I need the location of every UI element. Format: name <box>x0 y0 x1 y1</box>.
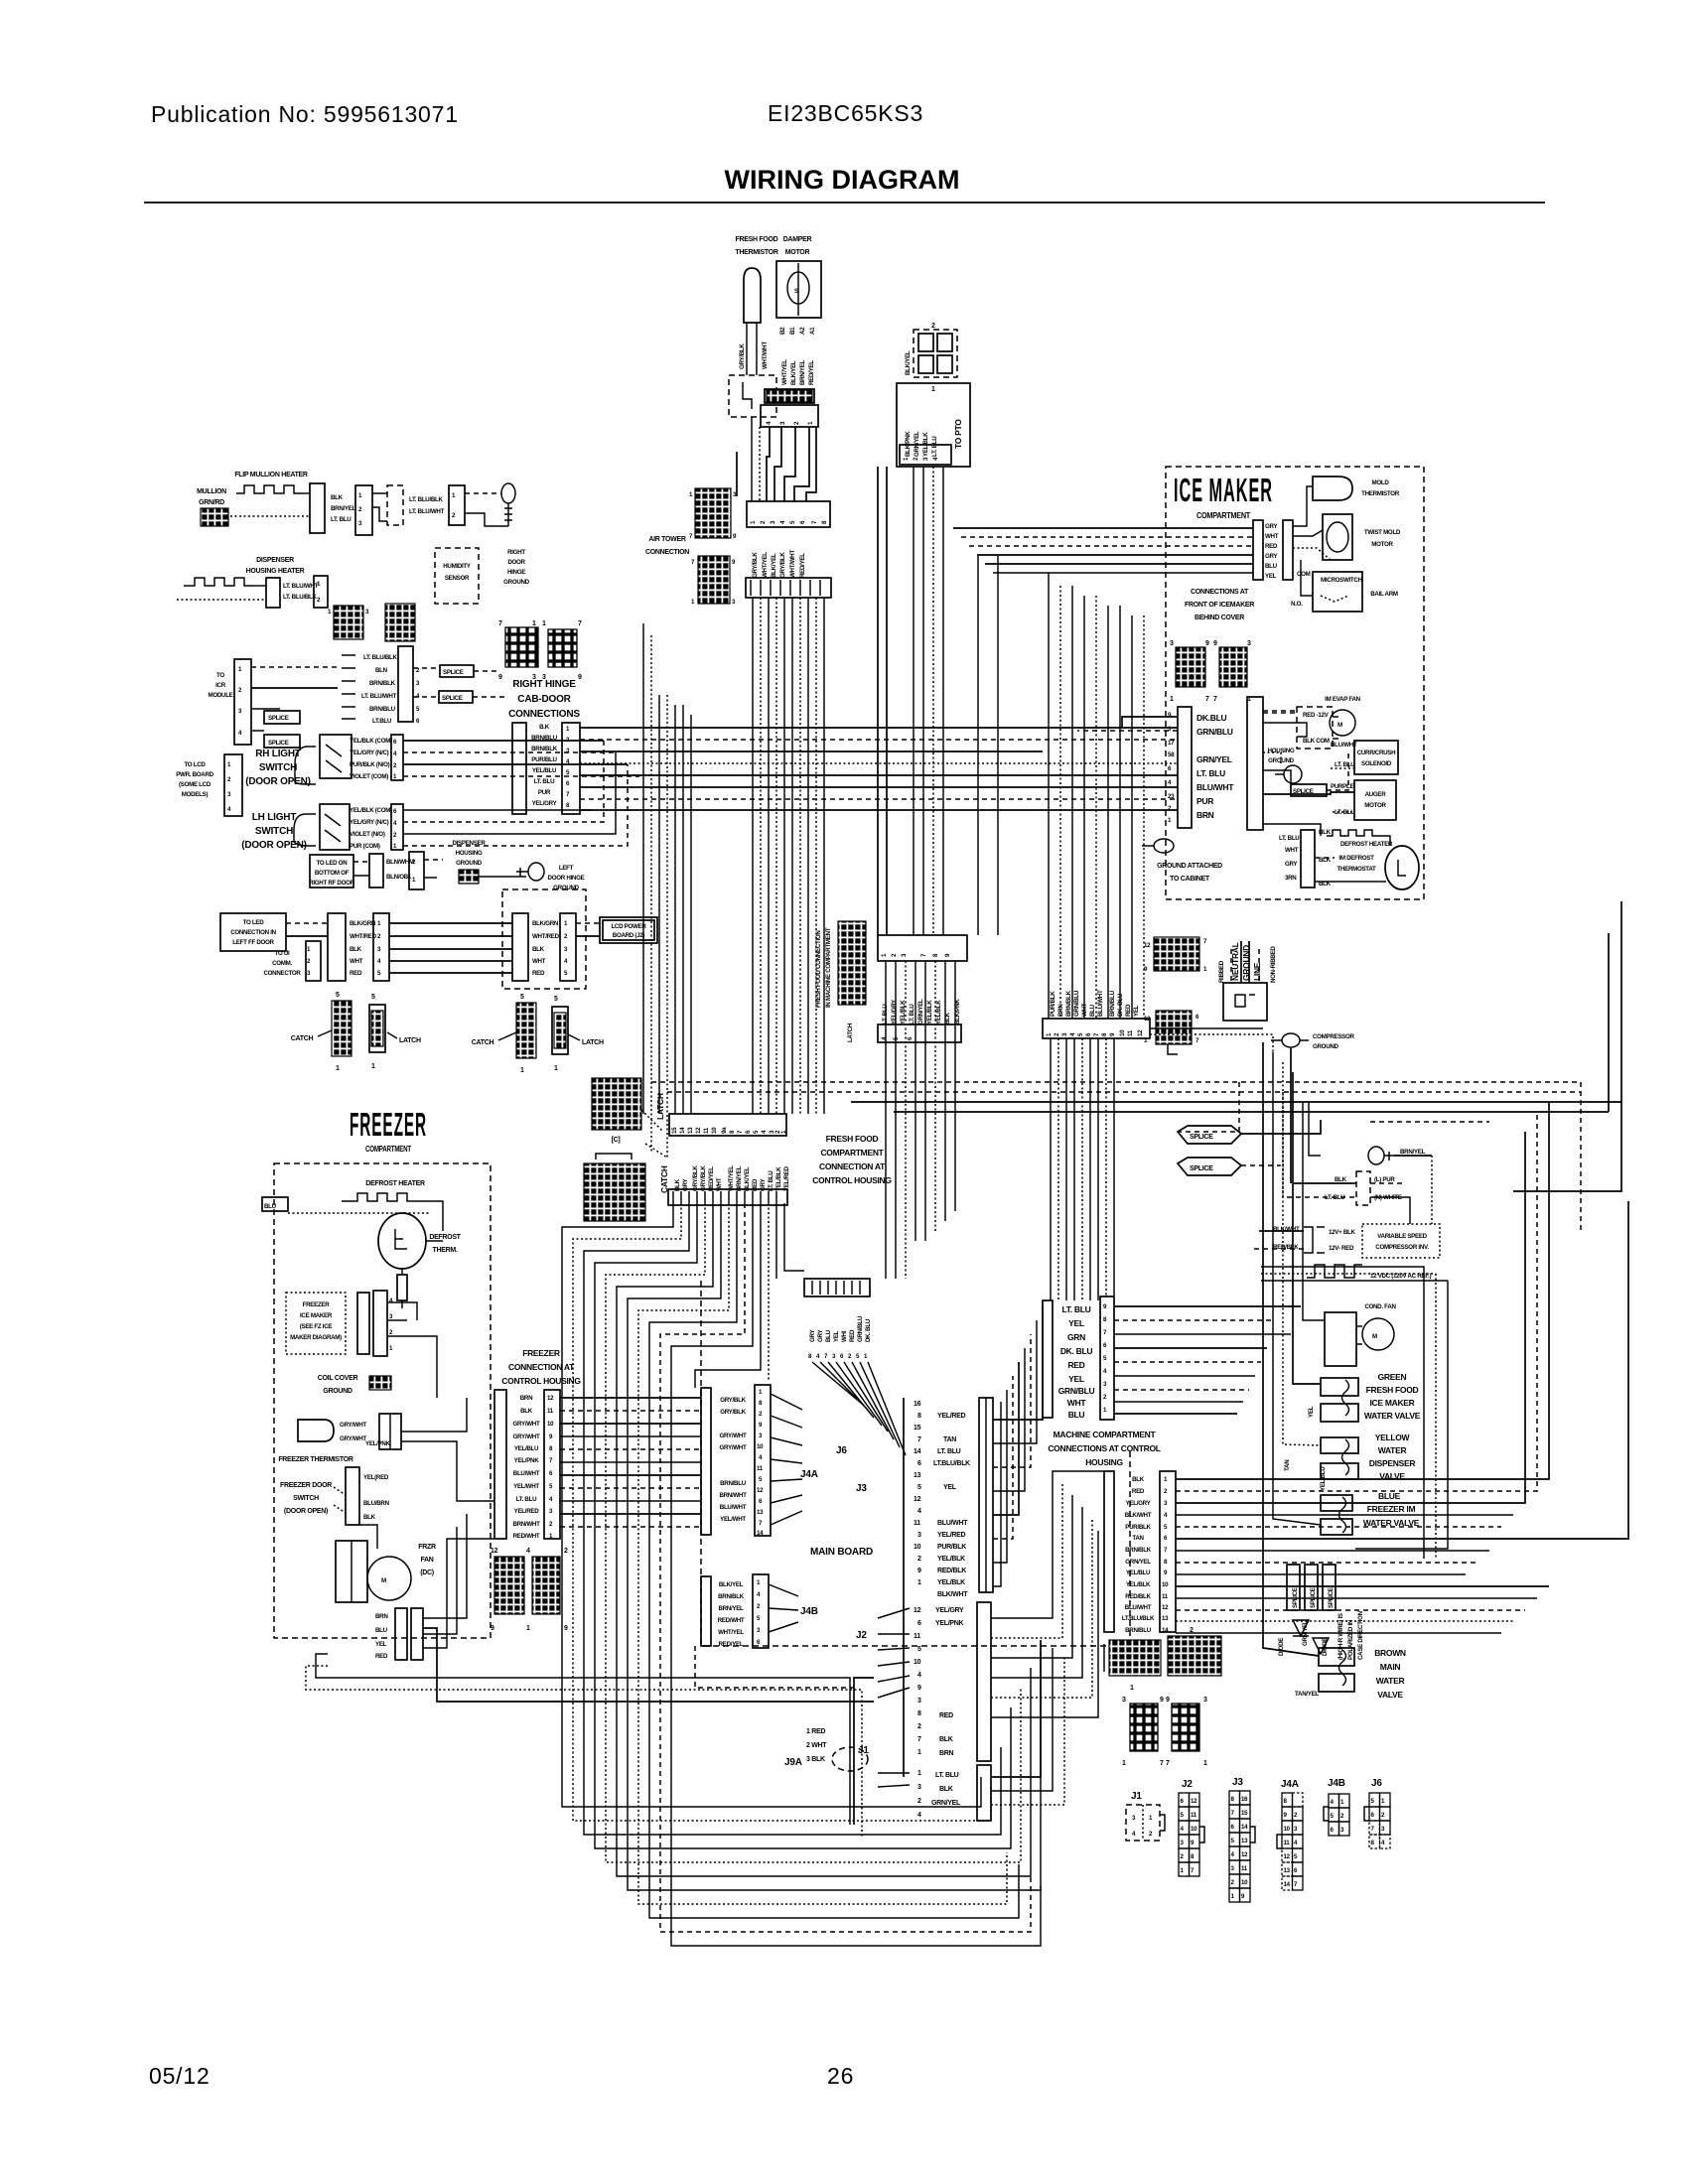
svg-text:YEL/RED: YEL/RED <box>937 1413 965 1420</box>
svg-text:12: 12 <box>1162 1604 1169 1611</box>
air tower bundle down to ff strip <box>752 598 754 1114</box>
svg-text:DISPENSER: DISPENSER <box>256 557 294 564</box>
svg-text:LT.BLU/BLK: LT.BLU/BLK <box>933 1460 970 1467</box>
rh switch wires right <box>403 740 604 742</box>
svg-text:LH LIGHT: LH LIGHT <box>252 812 297 823</box>
svg-text:YEL/GRY: YEL/GRY <box>532 800 558 807</box>
power cord wires <box>1230 949 1232 983</box>
svg-text:RED: RED <box>532 970 545 977</box>
svg-text:FREEZER IM: FREEZER IM <box>1367 1504 1416 1514</box>
svg-text:AIR TOWER: AIR TOWER <box>648 536 685 543</box>
cabinet ground symbol <box>1154 839 1174 853</box>
svg-text:5: 5 <box>554 996 558 1003</box>
svg-text:YEL/BLK: YEL/BLK <box>937 1579 965 1586</box>
svg-text:BLK/YEL: BLK/YEL <box>744 1166 751 1191</box>
bottom long horizontals from main board <box>854 1678 874 1825</box>
freezer housing hatch block 2 <box>532 1557 560 1614</box>
svg-text:BLK: BLK <box>1132 1476 1145 1483</box>
svg-text:10: 10 <box>547 1421 554 1428</box>
svg-text:BLK/GRN: BLK/GRN <box>350 920 376 927</box>
svg-text:3: 3 <box>917 1698 921 1705</box>
svg-text:THERMOSTAT: THERMOSTAT <box>1336 866 1376 873</box>
defrost heater element <box>350 1193 417 1201</box>
svg-text:GRN/YEL: GRN/YEL <box>931 1800 961 1807</box>
svg-text:12: 12 <box>695 1127 702 1134</box>
svg-text:BOTTOM OF: BOTTOM OF <box>315 870 350 877</box>
svg-text:GRN: GRN <box>1067 1332 1085 1342</box>
freezer fan wires bottom run <box>316 1654 850 1825</box>
svg-text:YEL/RED: YEL/RED <box>937 1532 965 1539</box>
svg-text:11: 11 <box>914 1520 920 1527</box>
svg-text:RED: RED <box>1067 1360 1084 1370</box>
svg-text:TO CABINET: TO CABINET <box>1170 876 1210 883</box>
svg-text:GROUND: GROUND <box>456 860 483 867</box>
svg-text:B2: B2 <box>779 327 786 335</box>
svg-text:LT. BLU/BLK: LT. BLU/BLK <box>409 496 444 503</box>
svg-text:J6: J6 <box>1371 1778 1382 1789</box>
svg-text:(DC): (DC) <box>420 1570 434 1576</box>
svg-text:16: 16 <box>914 1401 921 1408</box>
svg-text:15: 15 <box>1241 1810 1248 1817</box>
svg-text:RED/YEL: RED/YEL <box>799 553 806 578</box>
TO PTO box <box>897 383 970 467</box>
12-pin machine connector <box>1043 1019 1150 1038</box>
svg-text:58: 58 <box>1168 751 1175 758</box>
led pin strip right <box>560 913 576 981</box>
svg-text:LT. BLU: LT. BLU <box>534 778 555 785</box>
svg-text:RED: RED <box>939 1712 953 1719</box>
svg-text:4: 4 <box>917 1508 921 1515</box>
svg-text:10: 10 <box>1119 1029 1126 1036</box>
svg-text:BLK: BLK <box>350 946 362 953</box>
svg-text:PUR: PUR <box>1196 796 1213 806</box>
green ff ice maker water valve <box>1321 1378 1358 1396</box>
upper machine conn right bar <box>1100 1297 1114 1420</box>
lh lamp symbol <box>294 814 316 830</box>
svg-text:SWITCH: SWITCH <box>255 826 293 837</box>
svg-text:WHI: WHI <box>841 1330 848 1342</box>
ff strip fan down to left bundle <box>562 1203 981 1807</box>
svg-text:THERM.: THERM. <box>432 1247 457 1254</box>
svg-text:BLU: BLU <box>375 1627 388 1634</box>
svg-text:BLU/WHT: BLU/WHT <box>1196 782 1234 792</box>
svg-text:NON-RIBBED: NON-RIBBED <box>1270 946 1277 983</box>
svg-text:7: 7 <box>917 1736 921 1743</box>
svg-text:[C]: [C] <box>612 1137 621 1144</box>
svg-text:J4B: J4B <box>1328 1778 1345 1789</box>
svg-text:CATCH: CATCH <box>291 1035 314 1042</box>
svg-text:SPLICE: SPLICE <box>268 740 289 747</box>
svg-text:YEL: YEL <box>1068 1318 1084 1328</box>
svg-text:YEL/GRY: YEL/GRY <box>935 1607 964 1614</box>
svg-text:J3: J3 <box>1232 1777 1243 1788</box>
svg-text:4: 4 <box>526 1548 530 1555</box>
svg-text:(HIGH-R WIRE) IS: (HIGH-R WIRE) IS <box>1337 1613 1344 1660</box>
svg-text:7: 7 <box>498 620 502 627</box>
svg-text:7: 7 <box>1205 696 1209 703</box>
svg-text:RIGHT: RIGHT <box>507 549 525 556</box>
svg-text:WIRING DIAGRAM: WIRING DIAGRAM <box>725 165 960 195</box>
icemaker front connector bars <box>1253 520 1263 580</box>
svg-text:BLU/WHT: BLU/WHT <box>1331 742 1357 749</box>
svg-text:5: 5 <box>917 1646 921 1653</box>
yellow water dispenser valve <box>1321 1437 1358 1453</box>
svg-text:12: 12 <box>914 1607 921 1614</box>
svg-text:DOOR HINGE: DOOR HINGE <box>548 875 585 882</box>
remaining ff pins drop to main board <box>695 1203 761 1388</box>
hatch conn bottom 1 <box>1109 1640 1161 1676</box>
svg-text:TO LCD: TO LCD <box>184 761 206 768</box>
svg-text:LCD POWER: LCD POWER <box>611 923 646 930</box>
svg-text:11: 11 <box>1241 1865 1248 1872</box>
svg-text:17: 17 <box>1168 740 1175 747</box>
main board left edge <box>903 1398 905 1777</box>
svg-text:CASE DIRECTION: CASE DIRECTION <box>1357 1610 1364 1660</box>
svg-text:LT.BLU: LT.BLU <box>372 718 392 725</box>
svg-text:11: 11 <box>757 1465 764 1472</box>
freezer ice maker dotted box <box>286 1293 346 1354</box>
svg-text:BRN/YEL: BRN/YEL <box>331 505 356 512</box>
svg-text:YEL/WHT: YEL/WHT <box>720 1516 746 1523</box>
air tower grid connector lower <box>698 556 730 604</box>
freezer door switch <box>346 1467 359 1525</box>
J4A conn left bar <box>701 1388 711 1535</box>
svg-text:12: 12 <box>547 1395 554 1402</box>
svg-text:3RN: 3RN <box>1285 875 1297 882</box>
svg-text:14: 14 <box>1162 1627 1169 1634</box>
J9A connector oval <box>832 1747 868 1771</box>
svg-text:WHT/YEL: WHT/YEL <box>762 552 769 578</box>
svg-text:CONNECTION IN: CONNECTION IN <box>230 929 276 936</box>
svg-text:GRY/BLK: GRY/BLK <box>700 1165 707 1191</box>
fresh food thermistor bulb <box>744 268 761 323</box>
svg-text:BRN/BLU: BRN/BLU <box>1109 990 1116 1017</box>
svg-text:DIODE: DIODE <box>1278 1638 1285 1656</box>
svg-text:2: 2 <box>917 1556 921 1563</box>
svg-text:MODULE: MODULE <box>208 692 232 699</box>
svg-text:COMM.: COMM. <box>272 960 292 967</box>
svg-text:MAKER DIAGRAM): MAKER DIAGRAM) <box>290 1334 342 1341</box>
svg-text:SENSOR: SENSOR <box>445 575 470 582</box>
svg-text:HOUSING HEATER: HOUSING HEATER <box>246 568 305 575</box>
svg-text:J4A: J4A <box>800 1469 818 1480</box>
J6 fan slant wires <box>812 1362 906 1455</box>
svg-text:LATCH: LATCH <box>847 1023 854 1042</box>
svg-text:GRN/BLU: GRN/BLU <box>1196 727 1233 737</box>
J1 wires right <box>991 1640 1041 1777</box>
ff machine conn drop to J6 strip <box>886 961 896 1279</box>
svg-text:ICE MAKER: ICE MAKER <box>1174 472 1273 508</box>
svg-text:CONNECTIONS: CONNECTIONS <box>508 709 580 720</box>
svg-text:Publication No: 5995613071: Publication No: 5995613071 <box>151 101 459 127</box>
svg-text:LT. BLU: LT. BLU <box>1279 835 1300 842</box>
J2 strip right bar <box>977 1602 991 1761</box>
svg-text:BRN/WHT: BRN/WHT <box>512 1521 540 1528</box>
svg-text:YEL: YEL <box>1308 1406 1315 1418</box>
catch grid 1 <box>332 1001 352 1056</box>
svg-text:1: 1 <box>917 1579 921 1586</box>
latch grid upper <box>592 1078 641 1130</box>
svg-text:COMPRESSOR: COMPRESSOR <box>1313 1033 1355 1040</box>
rh switch pin col <box>391 735 403 780</box>
svg-text:GROUND: GROUND <box>553 885 580 891</box>
svg-text:7: 7 <box>578 620 582 627</box>
svg-text:FLIP MULLION HEATER: FLIP MULLION HEATER <box>234 472 308 478</box>
svg-text:DISPENSER: DISPENSER <box>452 840 486 847</box>
svg-text:PUR/BLK: PUR/BLK <box>1125 1524 1151 1531</box>
svg-text:VALVE: VALVE <box>1377 1690 1403 1700</box>
svg-text:J4A: J4A <box>1281 1779 1299 1790</box>
svg-text:EI23BC65KS3: EI23BC65KS3 <box>768 100 923 126</box>
svg-text:LT. BLU: LT. BLU <box>1062 1304 1091 1314</box>
svg-text:PUR/BLK: PUR/BLK <box>937 1544 966 1551</box>
defrost therm <box>378 1213 426 1269</box>
svg-text:J9A: J9A <box>784 1757 802 1768</box>
svg-text:3: 3 <box>917 1784 921 1791</box>
svg-text:WHT/YEL: WHT/YEL <box>781 359 788 385</box>
svg-text:BAIL ARM: BAIL ARM <box>1370 591 1398 598</box>
main strip right bar <box>979 1398 993 1592</box>
svg-text:TO LED ON: TO LED ON <box>317 860 349 867</box>
svg-text:GRY/BLK: GRY/BLK <box>752 552 759 578</box>
right door ground key symbol <box>501 483 515 503</box>
svg-text:FREEZER THERMISTOR: FREEZER THERMISTOR <box>278 1456 353 1463</box>
svg-text:13: 13 <box>687 1127 694 1134</box>
svg-text:LT. BLU: LT. BLU <box>935 1772 959 1779</box>
svg-text:(SEE FZ ICE: (SEE FZ ICE <box>300 1323 333 1330</box>
svg-text:9: 9 <box>1205 640 1209 647</box>
svg-text:YEL/GRY (N/C): YEL/GRY (N/C) <box>350 819 389 826</box>
svg-text:YEL/BLK: YEL/BLK <box>775 1166 782 1191</box>
svg-text:1: 1 <box>917 1749 921 1756</box>
evap fan wires <box>1263 712 1297 714</box>
svg-text:FAN: FAN <box>420 1557 433 1564</box>
svg-text:BLU: BLU <box>1265 563 1278 570</box>
dispenser heater connector <box>266 578 280 608</box>
svg-text:YEL: YEL <box>833 1330 840 1342</box>
svg-text:TO LED: TO LED <box>243 919 265 926</box>
svg-text:DOOR: DOOR <box>507 559 525 566</box>
svg-text:YEL/BLU: YEL/BLU <box>514 1445 539 1452</box>
svg-text:RED: RED <box>1265 543 1278 550</box>
svg-text:BRN: BRN <box>939 1750 954 1757</box>
svg-text:11: 11 <box>703 1127 710 1134</box>
svg-text:DEFROST HEATER: DEFROST HEATER <box>365 1180 425 1187</box>
svg-text:9: 9 <box>498 674 502 681</box>
rh lamp symbol <box>295 747 316 764</box>
svg-text:BRN/BLK: BRN/BLK <box>718 1593 745 1600</box>
svg-text:FRESH FOOD: FRESH FOOD <box>826 1134 879 1144</box>
verticals from icemaker feeds down to 12-pin conn <box>1048 573 1050 1019</box>
svg-text:BLU: BLU <box>264 1203 277 1210</box>
icemaker lower left pin col <box>1178 707 1192 828</box>
svg-text:YEL/BLK: YEL/BLK <box>935 1000 942 1024</box>
svg-text:RED: RED <box>849 1329 856 1342</box>
svg-text:1: 1 <box>526 1625 530 1632</box>
icemaker grid conn A <box>1176 647 1205 687</box>
catch grid lower <box>584 1163 645 1221</box>
damper motor box <box>776 261 821 318</box>
machine compartment pin bar <box>1160 1471 1176 1632</box>
svg-text:WHT/YEL: WHT/YEL <box>728 1165 735 1191</box>
svg-text:LT. BLU/BLK: LT. BLU/BLK <box>363 654 398 661</box>
svg-text:GROUND ATTACHED: GROUND ATTACHED <box>1157 863 1222 870</box>
svg-text:LATCH: LATCH <box>399 1037 421 1044</box>
valve feed verticals <box>1263 1042 1319 1656</box>
svg-text:RED/WHT: RED/WHT <box>513 1533 540 1540</box>
svg-text:FREEZER DOOR: FREEZER DOOR <box>280 1482 332 1489</box>
svg-text:WHT/WHT: WHT/WHT <box>789 550 796 578</box>
ff lower strip <box>668 1189 787 1205</box>
12 vdc square wave <box>1307 1265 1362 1278</box>
hatch conn bottom 2 <box>1168 1636 1221 1676</box>
blu label box <box>262 1197 288 1211</box>
svg-text:YEL: YEL <box>1133 1005 1140 1017</box>
svg-text:FRESH FOOD: FRESH FOOD <box>1366 1385 1419 1395</box>
svg-text:BLK: BLK <box>1335 1176 1347 1183</box>
svg-text:WHT: WHT <box>532 958 546 965</box>
TO PTO pin row <box>900 445 951 465</box>
svg-text:DK.BLU: DK.BLU <box>1196 713 1226 723</box>
svg-text:WHT: WHT <box>350 958 363 965</box>
machine compartment conn left bar <box>1104 1471 1114 1632</box>
svg-text:M: M <box>1372 1333 1377 1340</box>
svg-text:PWR. BOARD: PWR. BOARD <box>176 771 213 778</box>
svg-text:YEL/PNK: YEL/PNK <box>514 1457 540 1464</box>
air tower grid connector upper <box>695 488 731 538</box>
central door conn left pins <box>342 655 355 719</box>
svg-text:YEL/RED: YEL/RED <box>514 1508 540 1515</box>
svg-text:AUGER: AUGER <box>1365 791 1387 798</box>
pto to icemaker horizontals <box>953 527 1253 529</box>
svg-text:BLK: BLK <box>363 1514 376 1521</box>
lh switch pin col <box>391 804 403 850</box>
svg-text:7: 7 <box>1166 1760 1170 1767</box>
svg-text:GRY: GRY <box>1265 523 1278 530</box>
svg-text:COMPARTMENT: COMPARTMENT <box>365 1144 412 1154</box>
svg-text:FREEZER: FREEZER <box>522 1348 560 1358</box>
svg-text:2: 2 <box>917 1723 921 1730</box>
svg-text:FREEZER: FREEZER <box>303 1301 331 1308</box>
svg-text:TO PTO: TO PTO <box>953 419 963 449</box>
svg-text:(DOOR OPEN): (DOOR OPEN) <box>241 840 307 851</box>
svg-text:WHT: WHT <box>1285 847 1299 854</box>
svg-text:LEFT: LEFT <box>559 865 574 872</box>
svg-text:CONTROL HOUSING: CONTROL HOUSING <box>812 1175 892 1185</box>
svg-text:LT. BLU/WHT: LT. BLU/WHT <box>409 508 445 515</box>
svg-text:LT. BLU: LT. BLU <box>909 1004 915 1024</box>
svg-text:10: 10 <box>1241 1879 1248 1886</box>
svg-text:CONTROL HOUSING: CONTROL HOUSING <box>501 1376 581 1386</box>
svg-text:POLARIZED IN: POLARIZED IN <box>1347 1619 1354 1660</box>
J4A pin bar <box>755 1385 771 1536</box>
svg-text:SPLICE: SPLICE <box>1190 1165 1213 1172</box>
svg-text:BRN/WHT: BRN/WHT <box>719 1492 747 1499</box>
svg-text:11: 11 <box>914 1633 920 1640</box>
svg-text:FREEZER: FREEZER <box>350 1106 427 1143</box>
coil cover ground symbol <box>369 1376 391 1390</box>
svg-text:1: 1 <box>1203 1760 1207 1767</box>
svg-text:RED: RED <box>1132 1488 1145 1495</box>
svg-text:FRONT OF ICEMAKER: FRONT OF ICEMAKER <box>1185 602 1254 609</box>
svg-text:GROUND: GROUND <box>323 1388 352 1395</box>
thermistor connector <box>729 375 776 417</box>
svg-text:1: 1 <box>371 1063 375 1070</box>
svg-text:9: 9 <box>917 1568 921 1574</box>
svg-text:2: 2 <box>564 1548 568 1555</box>
upper machine conn right wires <box>1114 1305 1301 1307</box>
svg-text:12: 12 <box>1144 1016 1151 1023</box>
svg-text:RIGHT HINGE: RIGHT HINGE <box>512 679 576 690</box>
svg-text:TAN/YEL: TAN/YEL <box>1295 1691 1319 1698</box>
svg-text:RED: RED <box>375 1653 388 1660</box>
svg-text:12: 12 <box>914 1496 921 1503</box>
svg-text:3 BLK: 3 BLK <box>806 1756 825 1763</box>
svg-text:WATER VALVE: WATER VALVE <box>1364 1411 1421 1421</box>
svg-text:SWITCH: SWITCH <box>293 1495 319 1502</box>
svg-text:ICR: ICR <box>215 682 226 689</box>
svg-text:FRZR: FRZR <box>418 1544 436 1551</box>
grid conn bottom B <box>1172 1704 1199 1751</box>
svg-text:YEL/BLK (COM): YEL/BLK (COM) <box>350 807 392 814</box>
svg-text:PUR: PUR <box>538 789 551 796</box>
small grid connector pair <box>334 606 363 639</box>
compressor terminal connector <box>1356 1171 1370 1205</box>
svg-text:YEL/BLU: YEL/BLU <box>1126 1570 1151 1576</box>
J4B pin bar <box>753 1574 769 1648</box>
bail arm microswitch <box>1313 572 1362 612</box>
svg-text:3: 3 <box>1170 640 1174 647</box>
svg-text:N.O.: N.O. <box>1291 601 1303 608</box>
right side verticals mc-conn to diode column <box>1261 1267 1424 1559</box>
svg-text:HOUSING: HOUSING <box>456 850 483 857</box>
svg-text:ICE MAKER: ICE MAKER <box>1370 1398 1415 1408</box>
svg-text:GRY: GRY <box>809 1329 816 1342</box>
icemaker tall bar <box>1247 697 1263 830</box>
svg-text:9: 9 <box>1160 1697 1164 1704</box>
svg-text:BRN/YEL: BRN/YEL <box>736 1165 743 1191</box>
wires damper to air tower strip <box>751 417 753 501</box>
led wires across <box>286 922 328 924</box>
bus stubs to compressor area <box>1241 1120 1321 1134</box>
svg-text:J1: J1 <box>1131 1791 1142 1802</box>
cab-door pin bar <box>562 723 580 814</box>
air tower connector strip 1 <box>747 501 830 527</box>
thermistor leads <box>746 323 748 375</box>
svg-text:11: 11 <box>1162 1593 1169 1600</box>
svg-text:9: 9 <box>564 1625 568 1632</box>
svg-text:SPLICE: SPLICE <box>1190 1134 1213 1141</box>
svg-text:1: 1 <box>542 620 546 627</box>
svg-text:RED/YEL: RED/YEL <box>808 360 815 385</box>
svg-text:13: 13 <box>1241 1838 1248 1844</box>
svg-text:M: M <box>1337 722 1342 729</box>
svg-text:MULLION: MULLION <box>197 488 226 495</box>
svg-text:LT.BLU/BLK: LT.BLU/BLK <box>1122 1615 1155 1622</box>
ui comm pins <box>306 941 321 981</box>
svg-text:IN MACHINE COMPARTMENT: IN MACHINE COMPARTMENT <box>825 927 832 1008</box>
svg-text:YEL/BLK: YEL/BLK <box>1126 1581 1151 1588</box>
svg-text:TAN: TAN <box>1284 1459 1291 1471</box>
svg-text:COIL COVER: COIL COVER <box>318 1375 358 1382</box>
svg-text:1 RED: 1 RED <box>806 1728 825 1735</box>
svg-text:YEL/GRY (N/C): YEL/GRY (N/C) <box>350 750 389 756</box>
svg-text:BLU/WHT: BLU/WHT <box>1125 1604 1152 1611</box>
svg-text:BLU/WHT: BLU/WHT <box>513 1470 540 1477</box>
svg-text:VIOLET (COM): VIOLET (COM) <box>350 773 388 780</box>
svg-text:BRN/BLU: BRN/BLU <box>531 735 558 742</box>
svg-text:MOTOR: MOTOR <box>785 249 810 256</box>
